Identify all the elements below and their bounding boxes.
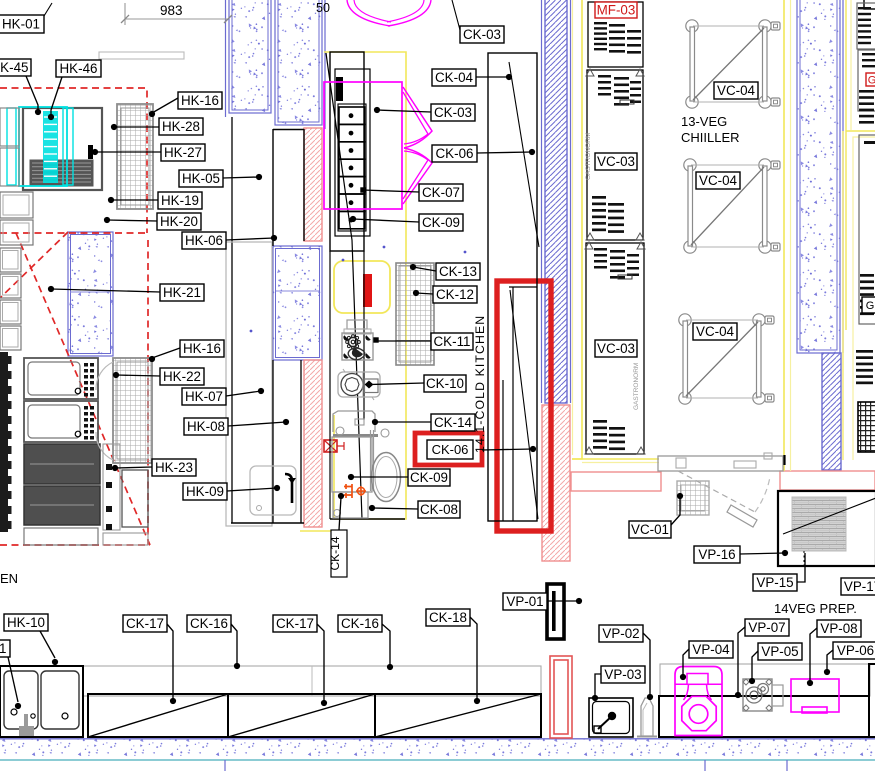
- svg-text:HK-23: HK-23: [155, 460, 193, 475]
- svg-text:HK-16: HK-16: [183, 341, 221, 356]
- svg-text:VP-17: VP-17: [844, 579, 875, 594]
- svg-text:CK-09: CK-09: [422, 215, 460, 230]
- svg-text:VP-02: VP-02: [602, 626, 639, 641]
- svg-text:HK-09: HK-09: [186, 484, 224, 499]
- svg-text:VP-03: VP-03: [604, 667, 641, 682]
- svg-text:CK-11: CK-11: [434, 334, 471, 349]
- svg-text:CK-17: CK-17: [276, 616, 314, 631]
- svg-text:CK-16: CK-16: [341, 616, 379, 631]
- svg-text:CK-06: CK-06: [436, 146, 474, 161]
- svg-text:HK-05: HK-05: [182, 171, 220, 186]
- svg-text:HK-20: HK-20: [160, 214, 198, 229]
- svg-text:MF-03: MF-03: [597, 3, 636, 18]
- svg-text:HK-46: HK-46: [60, 61, 98, 76]
- svg-text:VP-06: VP-06: [837, 643, 874, 658]
- svg-text:CK-10: CK-10: [426, 376, 464, 391]
- svg-text:G: G: [868, 74, 875, 86]
- svg-text:CHIILLER: CHIILLER: [681, 130, 740, 145]
- svg-text:983: 983: [160, 3, 183, 18]
- svg-text:HK-07: HK-07: [185, 389, 223, 404]
- svg-text:CK-13: CK-13: [439, 264, 477, 279]
- svg-text:VC-01: VC-01: [631, 522, 669, 537]
- svg-text:CK-12: CK-12: [436, 287, 474, 302]
- svg-text:CK-06: CK-06: [432, 442, 469, 457]
- svg-text:VP-05: VP-05: [761, 644, 798, 659]
- svg-text:CK-14: CK-14: [434, 415, 473, 430]
- svg-text:HK-28: HK-28: [162, 119, 200, 134]
- svg-text:HK-27: HK-27: [164, 145, 202, 160]
- svg-text:G: G: [866, 300, 875, 312]
- svg-text:VC-04: VC-04: [699, 173, 738, 188]
- svg-text:CK-17: CK-17: [126, 616, 164, 631]
- svg-text:VC-03: VC-03: [597, 154, 635, 169]
- svg-text:HK-11: HK-11: [0, 641, 6, 656]
- svg-text:VP-07: VP-07: [748, 620, 785, 635]
- svg-text:VC-04: VC-04: [717, 83, 756, 98]
- svg-text:VC-03: VC-03: [597, 341, 635, 356]
- svg-text:HK-10: HK-10: [7, 615, 45, 630]
- svg-text:HK-06: HK-06: [185, 233, 223, 248]
- svg-text:VP-08: VP-08: [820, 621, 857, 636]
- svg-text:CK-18: CK-18: [429, 610, 467, 625]
- svg-text:14VEG PREP.: 14VEG PREP.: [774, 601, 857, 616]
- svg-text:VP-01: VP-01: [506, 594, 543, 609]
- svg-text:GASTRONORM: GASTRONORM: [633, 363, 640, 410]
- svg-text:13-VEG: 13-VEG: [681, 114, 727, 129]
- svg-text:HK-16: HK-16: [181, 93, 219, 108]
- svg-text:HK-08: HK-08: [187, 419, 225, 434]
- svg-text:VC-04: VC-04: [696, 324, 735, 339]
- svg-text:HK-22: HK-22: [163, 369, 201, 384]
- svg-text:HK-01: HK-01: [2, 17, 40, 32]
- svg-text:HK-45: HK-45: [0, 60, 28, 75]
- svg-text:VP-16: VP-16: [698, 547, 735, 562]
- svg-text:14.1-COLD KITCHEN: 14.1-COLD KITCHEN: [473, 315, 487, 453]
- svg-text:CK-09: CK-09: [410, 470, 448, 485]
- svg-text:VP-15: VP-15: [756, 575, 793, 590]
- svg-text:CK-07: CK-07: [422, 185, 460, 200]
- svg-text:CK-14: CK-14: [328, 536, 342, 570]
- svg-text:50: 50: [316, 1, 330, 15]
- svg-text:HK-21: HK-21: [163, 285, 201, 300]
- svg-text:VP-04: VP-04: [692, 642, 730, 657]
- svg-text:GASTRONORM: GASTRONORM: [585, 133, 592, 180]
- svg-text:CK-03: CK-03: [434, 105, 472, 120]
- svg-text:CK-04: CK-04: [435, 70, 474, 85]
- svg-text:EN: EN: [0, 571, 18, 586]
- svg-text:HK-19: HK-19: [161, 193, 199, 208]
- svg-text:CK-03: CK-03: [463, 27, 501, 42]
- svg-text:CK-16: CK-16: [190, 616, 228, 631]
- svg-text:CK-08: CK-08: [420, 502, 458, 517]
